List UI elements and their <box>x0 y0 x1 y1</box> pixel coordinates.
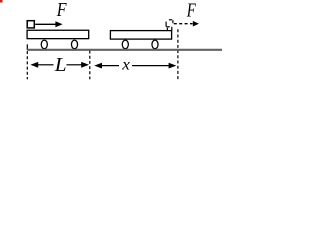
svg-text:F: F <box>56 0 67 21</box>
block on cart 1 (force application square) <box>27 21 34 28</box>
dimension L left arrowhead <box>30 62 38 68</box>
cart 1 wheel left <box>41 40 47 49</box>
dimension L right shaft <box>67 64 82 66</box>
guide line left end tick <box>26 44 28 50</box>
dimension x left shaft <box>102 65 120 67</box>
dimension L right arrowhead <box>81 62 89 68</box>
svg-text:x: x <box>121 56 130 73</box>
svg-text:F: F <box>186 0 196 21</box>
cart 1 wheel right <box>71 40 77 49</box>
dimension x left arrowhead <box>94 63 102 69</box>
force arrow F1 head <box>55 21 62 27</box>
cart 2 body <box>110 31 171 39</box>
dimension x right arrowhead <box>169 63 177 69</box>
red corner mark <box>0 0 3 3</box>
dimension L left shaft <box>38 64 54 66</box>
dashed guide line at right (x=178) <box>177 29 179 79</box>
svg-text:L: L <box>54 54 67 76</box>
dashed guide line at left cart rear (x=27) <box>26 51 28 79</box>
cart 2 wheel right <box>152 40 158 49</box>
phantom block on cart 2 (dashed square) <box>166 20 173 27</box>
force arrow F1 shaft <box>35 23 56 25</box>
cart 2 wheel left <box>122 40 128 49</box>
phantom force arrow head <box>193 21 199 27</box>
cart 2 top-right notch stub left <box>166 28 168 31</box>
connector from dashed square to cart 2 <box>171 27 173 31</box>
dimension x right shaft <box>132 65 169 67</box>
dashed guide line at left cart front (x=90) <box>89 51 91 80</box>
cart 1 body <box>27 30 89 38</box>
phantom force arrow shaft (dashed) <box>174 23 193 25</box>
ground line <box>27 49 222 51</box>
